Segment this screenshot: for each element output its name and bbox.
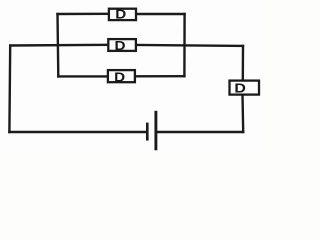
svg-text:D: D <box>115 38 126 53</box>
wire left outer vertical <box>8 46 11 132</box>
svg-text:D: D <box>115 7 126 22</box>
wire right lower vertical <box>241 95 244 132</box>
svg-text:D: D <box>234 81 246 96</box>
wire bottom right (battery positive to right branch) <box>156 131 243 133</box>
wire right junction vertical <box>183 14 186 76</box>
wire middle branch left <box>10 44 108 47</box>
wire middle branch right <box>136 45 243 46</box>
wire bottom branch left <box>58 75 108 77</box>
device D1 (top box) <box>109 7 136 22</box>
svg-text:D: D <box>114 69 125 84</box>
wire left junction vertical <box>56 14 59 76</box>
wire bottom left (node to battery negative) <box>9 131 147 133</box>
wire top branch right <box>136 13 185 15</box>
device D3 (bottom box) <box>108 69 135 84</box>
device D2 (middle box) <box>108 38 136 53</box>
battery negative plate (short) <box>146 123 149 141</box>
wire right upper vertical (D4 to middle node) <box>242 46 245 81</box>
wire top branch left <box>58 13 110 16</box>
battery positive plate (tall) <box>154 111 157 151</box>
wire bottom branch right <box>135 75 185 78</box>
device D4 (right box) <box>230 81 260 96</box>
